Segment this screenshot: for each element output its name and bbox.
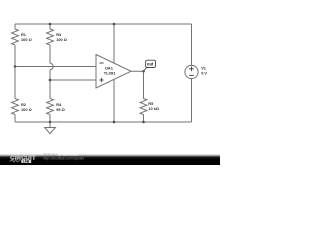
node out flag [144, 60, 156, 71]
node B junction [49, 79, 52, 82]
svg-text:out: out [147, 62, 154, 67]
junction bottom R4/ground [49, 121, 52, 124]
op-amp U1 [96, 55, 131, 89]
svg-text:100 Ω: 100 Ω [56, 37, 67, 42]
node A junction [14, 65, 17, 68]
svg-text:LAB: LAB [23, 159, 30, 163]
label V1 value [201, 66, 207, 76]
banner logo CIRCUIT [10, 156, 36, 162]
junction bottom V- [113, 121, 116, 124]
wire op-amp output [131, 70, 144, 72]
wire bottom rail [15, 121, 192, 123]
junction top rail R3 [49, 23, 52, 26]
resistor R2 [12, 67, 19, 123]
banner logo zigzag [10, 160, 21, 162]
label R5 value [148, 101, 159, 111]
resistor R3 [47, 24, 54, 63]
wire hop (R3 line over inverting-input wire) [50, 63, 53, 98]
label R4 value [56, 102, 65, 112]
label R2 value [21, 102, 32, 112]
node out junction [142, 70, 145, 73]
junction top rail V+ [113, 23, 116, 26]
svg-text:100 Ω: 100 Ω [21, 107, 32, 112]
svg-text:9 V: 9 V [201, 71, 207, 76]
wire top rail [15, 23, 192, 25]
junction bottom R5 [142, 121, 145, 124]
svg-text:100 Ω: 100 Ω [21, 37, 32, 42]
svg-text:http://circuitlab.com/c2pw82: http://circuitlab.com/c2pw82 [44, 156, 85, 160]
svg-text:95 Ω: 95 Ω [56, 107, 65, 112]
op-amp U1 power pins [113, 24, 115, 122]
svg-text:10 kΩ: 10 kΩ [148, 106, 159, 111]
resistor R4 [47, 99, 54, 123]
svg-text:TL081: TL081 [104, 70, 116, 75]
banner title text [44, 153, 85, 161]
ground [45, 122, 56, 134]
resistor R1 [12, 24, 19, 67]
wire non-inverting input from node B [50, 79, 96, 81]
label R1 value [21, 32, 32, 42]
voltage source V1 [185, 24, 198, 122]
banner logo LAB box [21, 159, 31, 163]
resistor R5 [140, 71, 147, 122]
banner background [0, 154, 220, 165]
label R3 value [56, 32, 67, 42]
wire inverting input from node A [15, 66, 96, 68]
